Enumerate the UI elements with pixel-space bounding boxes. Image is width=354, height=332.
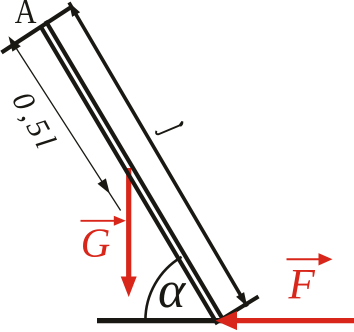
svg-text:G: G [81, 220, 111, 266]
force F (red horizontal arrow at rod base) [216, 311, 354, 330]
extension line at top end A (perpendicular to rod) [2, 8, 71, 53]
force G (red weight arrow at rod midpoint) [121, 168, 137, 297]
extension tick at bottom end (perpendicular to rod) [215, 297, 259, 324]
label F with vector bar [287, 253, 333, 308]
svg-text:0,5l: 0,5l [5, 86, 64, 157]
dimension line l (full length) [69, 3, 247, 307]
label G with vector bar [81, 216, 126, 266]
label l [156, 121, 182, 134]
ground line [97, 318, 222, 323]
beam (rod drawn as double line) [40, 21, 222, 323]
svg-text:A: A [15, 0, 37, 32]
svg-text:α: α [158, 262, 187, 319]
dimension line 0,5l (thin, from top end to midpoint) [9, 36, 121, 210]
angle arc [145, 257, 181, 321]
svg-text:F: F [288, 262, 316, 309]
